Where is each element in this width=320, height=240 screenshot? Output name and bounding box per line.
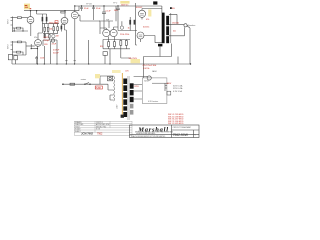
- wire long vertical x44.3: [43, 46, 45, 64]
- svg-text:82k: 82k: [100, 46, 103, 48]
- capacitor C6: [116, 6, 120, 31]
- svg-text:V1b: V1b: [34, 37, 37, 39]
- red marks in h1: [25, 4, 28, 7]
- resistor R9: [44, 35, 46, 38]
- wire T2 primary feeds: [100, 76, 114, 100]
- logo subtext: [131, 132, 173, 138]
- valve V6 rectifier: [147, 76, 151, 80]
- resistor R1 grid stopper CH1: [13, 17, 18, 19]
- wire V2b output right: [78, 15, 100, 21]
- red component box: [55, 21, 58, 23]
- wire V1b grid: [26, 45, 35, 47]
- resistor R14: [125, 41, 127, 46]
- svg-text:47uF: 47uF: [52, 44, 57, 46]
- svg-text:16Ω 8Ω: 16Ω 8Ω: [172, 23, 179, 25]
- wire OT centre tap down: [144, 44, 179, 79]
- wire PI lower rails: [103, 37, 130, 49]
- wire NFB: [187, 26, 190, 64]
- svg-text:0.1uF: 0.1uF: [106, 10, 112, 12]
- svg-text:JCM 7962: JCM 7962: [81, 131, 94, 135]
- wire V5 anode to OT: [144, 36, 163, 43]
- transformer T2 primary winding bars: [123, 79, 133, 118]
- wire OT secondary taps to speaker: [169, 14, 185, 35]
- wire T2 HT secondaries: [134, 76, 147, 99]
- red label cluster a tone top: [49, 22, 58, 24]
- resistor R23 inline: [61, 11, 65, 13]
- resistor R2 CH1 lower: [13, 27, 17, 29]
- svg-text:320uF: 320uF: [53, 52, 59, 54]
- wire B+ rail B y6: [75, 6, 122, 11]
- valve V1a: [27, 17, 34, 24]
- svg-text:Speaker: Speaker: [188, 25, 196, 27]
- wire V1a anode: [30, 11, 32, 17]
- svg-text:32uF: 32uF: [84, 8, 89, 10]
- svg-text:INPUT: INPUT: [8, 19, 10, 24]
- yellow highlight h1 top-left: [24, 4, 30, 10]
- svg-text:325V 0.2A: 325V 0.2A: [173, 85, 183, 88]
- wire long vertical x57: [56, 46, 58, 64]
- transformer T2 secondary winding bars: [130, 83, 134, 88]
- node black mark: [170, 7, 172, 9]
- svg-text:TP 1B: TP 1B: [86, 4, 92, 6]
- wire V2a cathode: [65, 24, 67, 64]
- transformer T1 output primary bar1: [153, 1, 169, 46]
- resistor network tone stack top rail: [42, 24, 59, 33]
- resistor R15 bias: [103, 52, 107, 56]
- wire OT top feed: [161, 6, 163, 13]
- wire V1b cathode to ground bus: [31, 44, 37, 64]
- fuse F1: [70, 83, 75, 85]
- svg-text:CIRCUIT DIAGRAM: CIRCUIT DIAGRAM: [173, 126, 191, 129]
- resistor R16 screen: [129, 20, 131, 25]
- valve V2b: [71, 12, 78, 19]
- yellow highlight h3 strip: [148, 10, 151, 17]
- svg-text:1M: 1M: [56, 36, 59, 38]
- standby line orange: [121, 73, 123, 115]
- svg-text:6L6GC: 6L6GC: [143, 26, 150, 28]
- wire V4 cathode: [141, 18, 143, 43]
- svg-text:47k 125uF 30H: 47k 125uF 30H: [143, 65, 157, 67]
- svg-text:TW: TW: [106, 20, 109, 22]
- svg-text:465V: 465V: [167, 83, 172, 85]
- voltage selector SK1: [108, 76, 113, 80]
- svg-text:325V 0.2A: 325V 0.2A: [173, 87, 183, 90]
- speaker jack J1: [184, 24, 187, 27]
- wire tone mid row: [43, 34, 58, 38]
- resistor R13: [120, 41, 122, 46]
- wire coupling row y21: [99, 21, 113, 28]
- ground ticks: [65, 60, 76, 62]
- wire V2a anode: [64, 11, 66, 18]
- transformer T2 core lines: [128, 76, 129, 120]
- red revision block: [168, 114, 184, 125]
- wire long vertical x50.7: [50, 41, 52, 64]
- valve V4 power 6L6 upper: [138, 10, 145, 17]
- svg-text:mains: mains: [81, 79, 86, 81]
- wire V2b anode: [74, 6, 76, 12]
- parts table text: [75, 121, 110, 133]
- svg-text:5AR4: 5AR4: [152, 70, 157, 73]
- wire screen feed: [115, 6, 117, 21]
- valve V2a: [61, 17, 68, 24]
- svg-text:325V: 325V: [134, 86, 139, 88]
- mains switch S1 row: [62, 83, 100, 85]
- svg-text:0.022: 0.022: [44, 37, 50, 39]
- svg-text:6L6GC: 6L6GC: [136, 7, 143, 9]
- capacitor C2 bypass: [35, 56, 38, 64]
- svg-text:250pF: 250pF: [44, 40, 50, 42]
- rectifier box outline: [142, 78, 167, 104]
- input jack bus CH1: [11, 17, 13, 33]
- capacitor C5: [102, 6, 106, 30]
- resistor R20 anode: [42, 17, 44, 22]
- resistor R22 cathode: [61, 26, 63, 30]
- resistor R11 PI tail: [108, 42, 110, 47]
- svg-text:GZ34: GZ34: [144, 80, 149, 82]
- node rail junctions: [30, 5, 119, 11]
- resistor R3 CH2: [13, 41, 18, 43]
- svg-text:330k 470k: 330k 470k: [49, 22, 58, 24]
- wire vertical x93.5: [93, 11, 95, 20]
- resistor R4 CH2 lower: [13, 51, 17, 53]
- node OT bottom lug: [158, 44, 162, 47]
- yellow highlight h4 bus note: [131, 59, 141, 63]
- yellow highlight h2 top-right: [120, 1, 129, 4]
- wire PI to power tube grids: [114, 27, 137, 31]
- wire screen vertical x88.7: [88, 40, 90, 64]
- resistor R21 anode: [46, 17, 48, 22]
- ground symbol heater: [167, 91, 171, 95]
- wire V1a cathode: [30, 23, 32, 36]
- red label mains box: [95, 86, 102, 89]
- transformer T1 core line: [170, 13, 172, 43]
- wire B+ rail B extension: [122, 5, 162, 7]
- resistor R10: [49, 35, 51, 38]
- resistor R17 screen: [134, 20, 136, 25]
- input jack bus CH2: [11, 41, 13, 56]
- wire HT down right: [164, 83, 166, 91]
- wire VR2 stub: [121, 21, 123, 26]
- ground lug T2: [121, 115, 124, 118]
- yellow highlight h5 mains: [95, 74, 100, 78]
- potentiometer VR1: [52, 35, 55, 38]
- valve V1b: [35, 40, 42, 47]
- svg-text:ISS 1 5.9.85 MOD: ISS 1 5.9.85 MOD: [168, 123, 184, 125]
- potentiometer VR2 presence: [120, 26, 123, 29]
- svg-text:SHEET: SHEET: [75, 131, 81, 133]
- svg-text:100k: 100k: [40, 58, 44, 60]
- wire B+ rail A y10.7: [24, 10, 79, 12]
- svg-text:7962-50W: 7962-50W: [173, 133, 189, 137]
- wire V2b cathode down: [74, 19, 76, 64]
- transformer T2 mains primary arcs: [114, 76, 115, 101]
- wire bias to bus: [105, 49, 131, 64]
- resistor R6: [47, 27, 49, 31]
- capacitor C8: [14, 56, 18, 60]
- valve V3 phase inverter: [103, 29, 110, 36]
- resistor R8: [57, 27, 59, 31]
- svg-text:N 470k: N 470k: [143, 68, 149, 70]
- resistor R7: [53, 27, 55, 31]
- switch S1 blade: [85, 83, 89, 85]
- capacitor C7 cathode block left: [8, 55, 12, 60]
- svg-text:56k: 56k: [49, 29, 52, 31]
- svg-text:INPUT: INPUT: [8, 44, 10, 49]
- wire anode feed: [37, 11, 47, 14]
- resistor R5: [44, 27, 46, 31]
- svg-text:1k: 1k: [128, 27, 130, 29]
- svg-text:32uF: 32uF: [96, 8, 101, 10]
- parts table: [74, 121, 132, 135]
- svg-text:465V DC: 465V DC: [121, 4, 129, 6]
- node OT top lug: [153, 1, 157, 4]
- ground bus: [12, 63, 191, 65]
- transformer T1 secondary bar segments: [166, 16, 169, 25]
- svg-text:7962: 7962: [97, 133, 103, 136]
- svg-text:0.68uF: 0.68uF: [53, 50, 60, 52]
- wire CH2 bottom: [13, 42, 27, 55]
- wire tone bottom: [43, 40, 57, 46]
- wire V1b anode up: [38, 33, 42, 40]
- capacitor C3 filter: [80, 6, 83, 11]
- yellow highlight h6 above T2: [112, 70, 121, 73]
- svg-text:6.3V heaters: 6.3V heaters: [148, 100, 158, 103]
- wire CH1 bottom loop: [13, 28, 29, 31]
- svg-text:56k 250V: 56k 250V: [129, 58, 138, 60]
- wire HT output: [152, 82, 169, 84]
- wire V4 anode to OT: [142, 9, 162, 11]
- potentiometer VR3: [51, 39, 54, 42]
- capacitor C4 filter: [92, 6, 95, 11]
- svg-text:220k 220k: 220k 220k: [120, 34, 129, 36]
- title block frame: [130, 125, 200, 138]
- wire PI grid top: [100, 21, 106, 34]
- svg-text:FUSE: FUSE: [96, 87, 102, 89]
- valve V5 power 6L6 lower: [137, 32, 144, 39]
- resistor R12: [113, 42, 115, 47]
- svg-text:6.3V 3.5A: 6.3V 3.5A: [173, 90, 182, 93]
- svg-text:47k: 47k: [146, 19, 149, 21]
- wire screens vertical: [136, 3, 138, 45]
